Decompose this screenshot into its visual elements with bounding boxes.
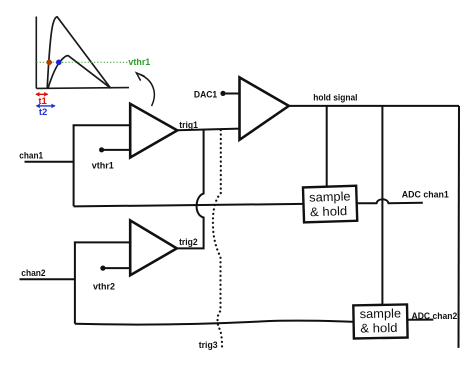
svg-text:ADC chan2: ADC chan2 [412, 311, 458, 322]
wire chan1 vertical bus [73, 125, 75, 206]
wire hold signal [289, 105, 459, 107]
wire hold drop to sample-hold 2 [381, 106, 383, 305]
wire chan1 to sample-hold 1 [74, 204, 304, 207]
t1 red double arrow [35, 92, 48, 97]
svg-text:t2: t2 [39, 107, 47, 118]
svg-text:trig3: trig3 [199, 340, 218, 351]
svg-text:ADC chan1: ADC chan1 [402, 190, 450, 201]
wire trig1 to trig2 vertical with hop over chan1 line [177, 129, 204, 249]
comparator U3 (hold) [240, 77, 289, 139]
inset small pulse curve [48, 56, 111, 89]
comparator U1 (trig1) [130, 104, 177, 158]
svg-text:sample: sample [360, 306, 402, 321]
svg-text:chan2: chan2 [21, 268, 45, 279]
threshold crossing dot (small pulse) [56, 60, 62, 66]
vthr1 input terminal dot [99, 147, 104, 152]
sample and hold box 2 [353, 304, 407, 338]
wire chan1 input [25, 161, 74, 163]
wire DAC1 to U3 input [225, 93, 240, 95]
wire ADC chan1 output with hop [357, 199, 423, 203]
svg-text:trig1: trig1 [179, 120, 198, 131]
vthr1 threshold dotted green line [37, 61, 128, 63]
wire hold drop to sample-hold 1 [326, 106, 328, 186]
inset large pulse curve [47, 17, 110, 89]
threshold crossing dot (large pulse) [46, 60, 52, 66]
wire chan2 vertical bus [74, 242, 76, 324]
wire chan2 to sample-hold 2 [75, 321, 354, 325]
trig3 dotted line [213, 130, 222, 348]
svg-text:chan1: chan1 [19, 151, 43, 162]
wire vthr1 to U1 minus input [102, 149, 130, 151]
wire chan2 input [20, 278, 75, 280]
svg-text:& hold: & hold [360, 321, 397, 336]
comparator U2 (trig2) [130, 220, 177, 275]
svg-text:vthr2: vthr2 [93, 281, 115, 292]
inset graph x-axis [36, 87, 129, 90]
inset graph y-axis [35, 17, 37, 89]
vthr2 input terminal dot [100, 266, 105, 271]
wire ADC chan2 output [407, 319, 433, 321]
wire vthr2 to U2 minus input [103, 267, 130, 269]
DAC1 input terminal dot [220, 91, 225, 96]
curved arrow pointing to inset graph [136, 73, 154, 106]
svg-text:hold signal: hold signal [313, 92, 357, 103]
svg-text:& hold: & hold [310, 204, 348, 219]
wire chan1 to U1 plus input [73, 124, 131, 126]
svg-text:DAC1: DAC1 [194, 90, 218, 101]
wire trig1 from U1 output to U3 input [177, 129, 240, 131]
wire chan2 to U2 plus input [74, 241, 130, 243]
svg-text:vthr1: vthr1 [128, 57, 151, 68]
svg-text:sample: sample [309, 189, 351, 204]
svg-text:trig2: trig2 [179, 237, 198, 248]
wire right vertical from hold signal [458, 106, 461, 348]
t2 blue double arrow [36, 104, 56, 109]
svg-text:vthr1: vthr1 [92, 161, 115, 172]
sample and hold box 1 [303, 186, 357, 223]
